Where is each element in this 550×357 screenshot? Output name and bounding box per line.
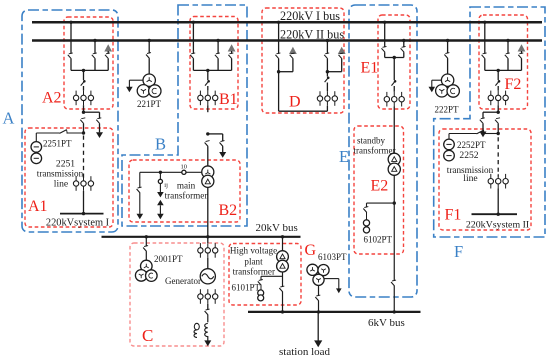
svg-text:B2: B2	[219, 202, 238, 219]
svg-text:station load: station load	[279, 346, 331, 357]
svg-text:220kV I bus: 220kV I bus	[280, 9, 340, 23]
svg-text:6kV bus: 6kV bus	[368, 317, 405, 329]
svg-text:2252PT: 2252PT	[457, 140, 486, 150]
svg-text:A1: A1	[28, 198, 48, 215]
svg-text:transformer: transformer	[165, 191, 208, 201]
svg-text:Generator: Generator	[165, 276, 201, 286]
svg-text:line: line	[463, 173, 477, 184]
svg-text:220kV II bus: 220kV II bus	[280, 27, 344, 41]
svg-text:6103PT: 6103PT	[318, 252, 347, 262]
svg-text:B: B	[155, 135, 166, 154]
svg-text:transformer: transformer	[233, 266, 275, 276]
svg-text:F2: F2	[505, 76, 522, 93]
svg-text:line: line	[54, 179, 68, 190]
svg-text:D: D	[289, 94, 301, 111]
svg-text:2251PT: 2251PT	[43, 139, 72, 149]
svg-text:2252: 2252	[459, 150, 478, 161]
svg-text:E1: E1	[361, 60, 379, 77]
svg-text:220kVsystem II: 220kVsystem II	[466, 220, 529, 231]
svg-text:main: main	[177, 181, 196, 191]
svg-text:transmission: transmission	[37, 169, 84, 179]
svg-text:F1: F1	[445, 207, 462, 224]
svg-text:G: G	[305, 242, 317, 259]
svg-text:E: E	[339, 147, 349, 166]
svg-text:10: 10	[181, 163, 188, 170]
svg-text:222PT: 222PT	[435, 105, 460, 115]
svg-text:A: A	[3, 109, 15, 128]
svg-text:2001PT: 2001PT	[154, 254, 183, 264]
svg-text:221PT: 221PT	[137, 99, 162, 109]
svg-text:20kV bus: 20kV bus	[256, 222, 298, 234]
svg-text:ij: ij	[164, 182, 168, 189]
svg-text:6102PT: 6102PT	[364, 235, 393, 245]
svg-text:standby: standby	[357, 136, 385, 146]
svg-text:F: F	[454, 242, 463, 261]
svg-text:6101PT: 6101PT	[232, 283, 261, 293]
svg-text:220kVsystem I: 220kVsystem I	[46, 218, 110, 229]
svg-text:plant: plant	[244, 256, 263, 266]
svg-text:E2: E2	[371, 178, 389, 195]
svg-text:B1: B1	[219, 91, 238, 108]
svg-text:High voltage: High voltage	[230, 246, 277, 256]
svg-text:transformer: transformer	[354, 146, 396, 156]
svg-text:A2: A2	[42, 90, 62, 107]
svg-text:C: C	[142, 326, 153, 345]
